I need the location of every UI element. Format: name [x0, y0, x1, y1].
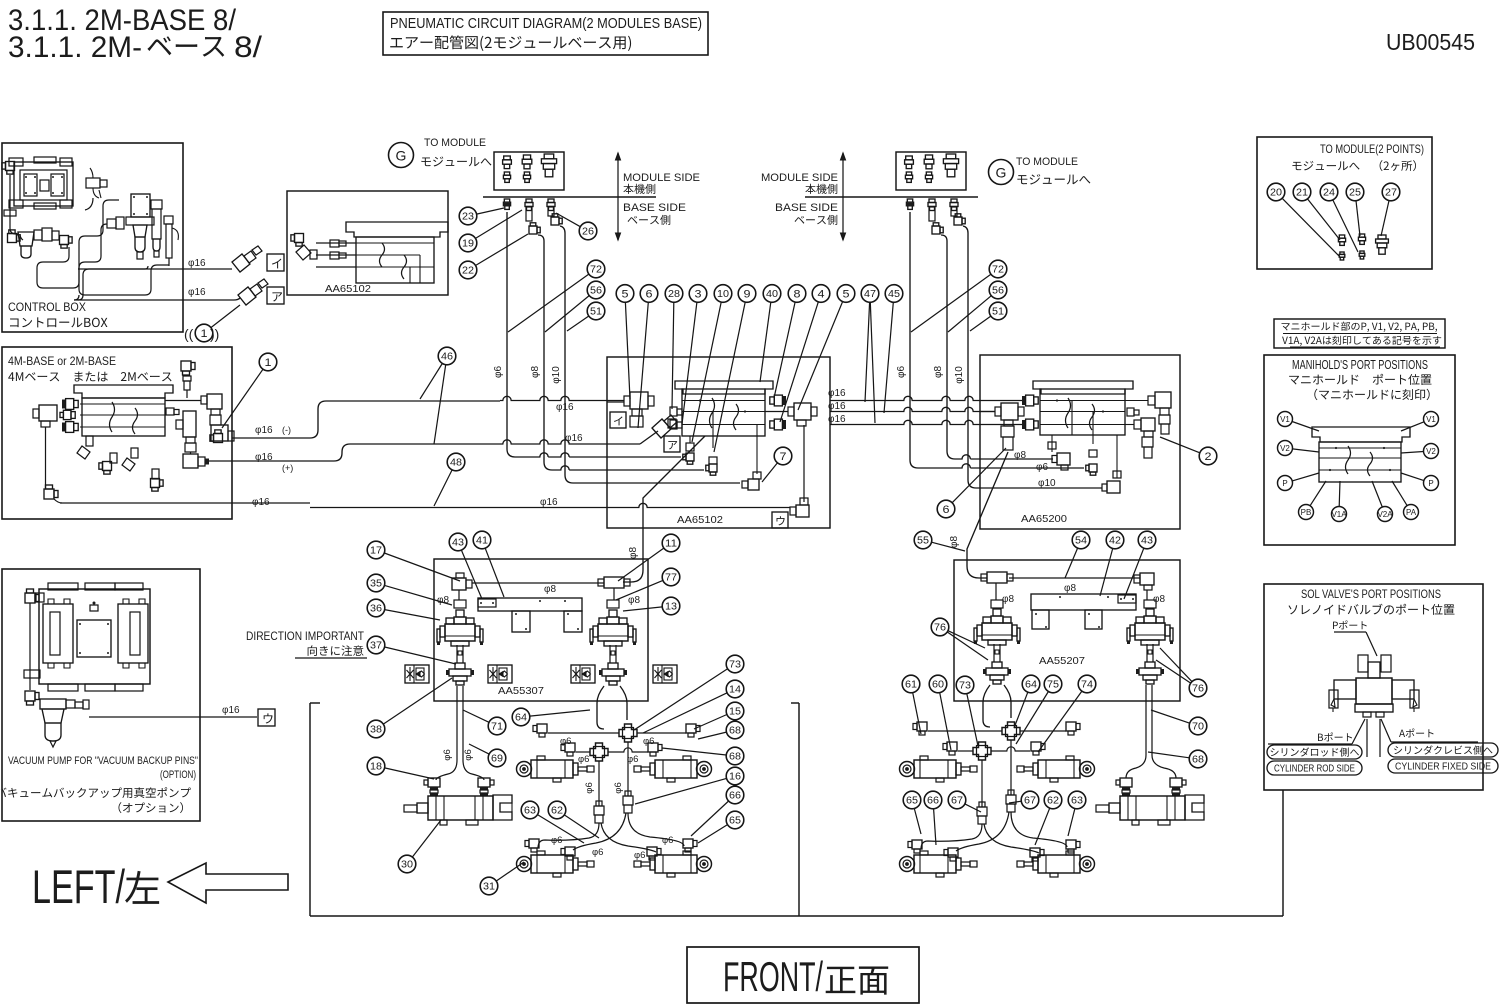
svg-text:21: 21 — [1296, 188, 1308, 199]
base fitting 3 left — [547, 199, 555, 216]
port V1 left — [1278, 412, 1320, 432]
to module text left — [421, 137, 491, 166]
phi8 label AA55207 right — [1153, 594, 1165, 605]
big cylinder right module — [1096, 795, 1204, 825]
callout 5 — [798, 285, 855, 410]
pipe phi10 left vertical — [560, 226, 740, 483]
svg-text:φ16: φ16 — [255, 425, 273, 436]
svg-text:V1: V1 — [1426, 415, 1436, 424]
callout 21 — [1293, 183, 1311, 201]
base fitting 2 left — [525, 199, 533, 221]
vacuum pump left pipe — [25, 589, 44, 705]
manihold drawing — [1312, 427, 1410, 482]
cross2r right elbow — [1031, 742, 1045, 755]
title text 2M-BASE — [8, 4, 237, 37]
callout 67 — [1009, 791, 1039, 809]
callout 56 — [948, 281, 1007, 332]
vacuum pump filter — [40, 699, 89, 747]
svg-text:AA55307: AA55307 — [498, 685, 544, 697]
small cylinder mid-left — [517, 756, 595, 782]
cross2r right arm — [991, 747, 1030, 751]
svg-text:24: 24 — [1323, 188, 1335, 199]
svg-text:4: 4 — [818, 289, 825, 301]
svg-text:18: 18 — [370, 762, 382, 773]
manihold-positions box — [1264, 355, 1455, 545]
direction fitting right — [599, 645, 627, 685]
speed controller 1 — [405, 665, 429, 683]
AA55307 label — [498, 685, 544, 697]
cross fitting 2 right module — [973, 742, 991, 760]
P port label — [1333, 621, 1377, 656]
cross2 left elbow — [561, 743, 575, 756]
cyl feed pipe A — [598, 761, 600, 806]
callout 19 — [459, 210, 522, 252]
phi6 rotated A — [584, 782, 595, 793]
svg-text:46: 46 — [441, 352, 453, 363]
callout 43 — [449, 533, 482, 599]
phi8 label AA65200 — [1014, 450, 1026, 461]
callout 31 — [480, 862, 524, 895]
machine outline bottom — [310, 915, 1283, 917]
svg-text:φ6: φ6 — [584, 782, 595, 793]
svg-text:10: 10 — [717, 289, 729, 300]
AA55207 top-right elbow — [1134, 573, 1154, 600]
AA65102 under-manifold fitting 1 — [683, 436, 694, 464]
svg-text:6: 6 — [646, 289, 653, 301]
svg-text:V2: V2 — [1426, 447, 1436, 456]
cross2r left arm — [958, 750, 973, 752]
cyl feed pipe rA — [981, 760, 983, 807]
phi8 label top pipe — [544, 584, 556, 595]
base fitting 1 right — [906, 199, 913, 209]
phi6 rotated right — [896, 366, 907, 378]
callout 36 — [367, 599, 440, 620]
callout 54 — [1065, 531, 1090, 578]
AA65200 label — [1021, 513, 1067, 525]
katakana-i marker 2 — [610, 412, 626, 428]
4M-BASE manifold — [74, 385, 173, 436]
callout 22 — [459, 234, 528, 279]
phi10 rotated left — [551, 366, 562, 384]
svg-text:77: 77 — [665, 573, 677, 584]
control box frame — [2, 143, 183, 332]
control box pump left pipe — [2, 162, 16, 229]
svg-text:V1: V1 — [1280, 415, 1290, 424]
callout 65 — [698, 811, 744, 843]
inter-box line 1 — [830, 396, 1024, 400]
katakana-i route marker — [267, 254, 284, 271]
callout 6 — [638, 285, 658, 428]
callout 72 — [508, 260, 605, 332]
mid elbow L — [533, 724, 547, 737]
svg-text:68: 68 — [729, 726, 741, 737]
svg-text:DIRECTION IMPORTANT: DIRECTION IMPORTANT — [246, 631, 364, 643]
svg-text:CONTROL BOX: CONTROL BOX — [8, 300, 86, 314]
cross2 right elbow — [648, 743, 662, 756]
svg-text:UB00545: UB00545 — [1386, 29, 1475, 55]
small cylinder mid-right — [634, 756, 712, 782]
callout 18 — [367, 757, 434, 779]
svg-text:64: 64 — [515, 713, 527, 724]
svg-text:66: 66 — [729, 791, 741, 802]
callout 20 — [1267, 183, 1285, 201]
phi6 label AA65200 — [1036, 462, 1048, 473]
phi8 rotated label left feed — [628, 547, 639, 559]
bottom elbows left module — [525, 839, 697, 860]
callout 45 — [884, 285, 903, 413]
phi16 L2 mid label — [556, 402, 583, 444]
callout 24 — [1320, 183, 1338, 201]
AA65200 right elbow mid — [1125, 418, 1155, 458]
svg-text:25: 25 — [1349, 188, 1361, 199]
to-module fitting group left — [494, 152, 564, 190]
solenoid valve AA55207 left (76) — [974, 609, 1020, 645]
elbow fitting to AA65102-a — [238, 279, 268, 305]
AA65200 left tee — [980, 403, 1024, 450]
pipe phi8 right vertical — [941, 235, 1053, 459]
AA65102 box — [607, 357, 830, 528]
AA65102 manifold — [675, 381, 773, 474]
callout 68 — [1148, 750, 1207, 768]
main line L2 (phi16 plus) — [209, 431, 658, 461]
svg-text:φ16: φ16 — [540, 497, 558, 508]
svg-text:56: 56 — [992, 286, 1004, 297]
svg-text:φ8: φ8 — [544, 584, 556, 595]
callout 76 left — [931, 618, 988, 660]
phi6 rotated left — [493, 366, 504, 378]
katakana-u route marker — [258, 709, 275, 726]
svg-text:23: 23 — [462, 212, 474, 223]
callout 46 leaders — [420, 364, 446, 445]
cyl feed pipe B — [627, 742, 629, 796]
cross fitting 1 left module — [619, 724, 637, 742]
svg-text:φ16: φ16 — [222, 705, 240, 716]
left arrow — [168, 863, 288, 903]
svg-text:φ6: φ6 — [643, 736, 654, 747]
svg-text:43: 43 — [1141, 536, 1153, 547]
svg-text:17: 17 — [370, 546, 382, 557]
phi16 minus labels — [255, 425, 291, 436]
svg-text:φ6: φ6 — [578, 754, 589, 765]
callout 69 — [469, 744, 506, 767]
callout 13 — [623, 597, 680, 615]
svg-text:V2A: V2A — [1377, 510, 1393, 519]
to module text right — [1016, 156, 1090, 184]
manihold-positions title — [1289, 358, 1431, 400]
module-base separator left — [483, 196, 656, 198]
branch fitting rB — [1006, 790, 1016, 812]
phi16 label out1 — [188, 258, 206, 269]
svg-text:P: P — [1428, 479, 1433, 488]
katakana-u marker 2 — [772, 512, 788, 528]
AA55307 plate — [478, 598, 582, 632]
base side label left — [623, 202, 686, 225]
vacuum pump box frame — [2, 569, 200, 821]
module-base separator right — [805, 196, 978, 198]
svg-text:13: 13 — [665, 602, 677, 613]
main line C (phi16 bottom) — [310, 503, 790, 507]
solenoid valve left (35/36) — [437, 610, 483, 646]
callout 9 — [714, 285, 756, 452]
2points fitting 2 — [1358, 234, 1365, 259]
AA65102 bottom right elbow — [790, 425, 809, 517]
svg-text:PNEUMATIC CIRCUIT DIAGRAM(2 MO: PNEUMATIC CIRCUIT DIAGRAM(2 MODULES BASE… — [390, 16, 702, 32]
phi8 feed pipe right module — [967, 452, 1008, 578]
port PA — [1392, 481, 1419, 520]
svg-text:55: 55 — [917, 536, 929, 547]
base fitting 3 right — [950, 199, 958, 216]
phi16 plus labels — [255, 452, 293, 473]
2points fitting 1 — [1338, 235, 1345, 260]
phi8 label right stem — [628, 595, 640, 606]
cross2r left elbow — [943, 742, 957, 755]
machine outline left module — [310, 703, 320, 916]
svg-text:AA65102: AA65102 — [677, 514, 723, 526]
svg-text:38: 38 — [370, 725, 382, 736]
phi16 line C start — [60, 502, 310, 504]
katakana-a marker 2 — [664, 436, 680, 452]
direction fitting left (37/38) — [446, 645, 474, 685]
callout 15 — [694, 702, 744, 729]
svg-text:φ6: φ6 — [613, 782, 624, 793]
svg-text:7: 7 — [780, 451, 787, 463]
AA55307 top tee — [598, 577, 630, 600]
phi8 rotated left — [530, 366, 541, 378]
AA65200 box — [980, 355, 1180, 529]
control box pump unit — [9, 157, 73, 209]
base elbow 3 right — [954, 214, 965, 225]
cross fitting 2 left module — [590, 743, 608, 761]
svg-text:45: 45 — [888, 289, 900, 300]
port P right — [1401, 473, 1439, 491]
speed controller 3 — [571, 665, 595, 683]
bottom elbows right module — [908, 840, 1080, 861]
4M-BASE output fitting B — [183, 452, 209, 468]
sol-valve box — [1264, 584, 1483, 790]
AA55307 top-left elbow — [452, 573, 472, 600]
AA65102 upper manifold — [316, 222, 448, 283]
callout 68 — [698, 721, 744, 739]
callout 14 — [643, 680, 744, 733]
port V2 right — [1401, 444, 1439, 459]
phi8 label AA55207 top — [1064, 583, 1076, 594]
AA65102 diag elbow — [652, 415, 677, 438]
svg-text:1: 1 — [265, 357, 272, 369]
svg-text:26: 26 — [582, 227, 594, 238]
cylinder rod side JP pill — [1267, 745, 1362, 759]
svg-text:(-): (-) — [282, 425, 291, 435]
FRONT box — [687, 947, 919, 1003]
small cylinder r bot-right — [1017, 851, 1095, 877]
port V2 left — [1278, 441, 1320, 456]
to-module fitting group right — [896, 152, 966, 190]
AA65200 left fittings — [1022, 395, 1038, 430]
AA65102 under-manifold fitting 2 — [706, 457, 717, 475]
svg-text:69: 69 — [491, 754, 503, 765]
callout 66 — [924, 791, 942, 845]
svg-text:30: 30 — [401, 860, 413, 871]
sol valve down lines — [1367, 719, 1380, 757]
svg-text:3: 3 — [695, 289, 702, 301]
bottom branch pipes left module — [538, 813, 684, 852]
callout 1 double-paren — [184, 305, 240, 342]
cross2 right arm — [608, 748, 648, 752]
svg-text:51: 51 — [992, 307, 1004, 318]
phi10 label AA65200 — [1038, 478, 1056, 489]
AA65102 label — [677, 514, 723, 526]
AA55207 top pipe — [1009, 577, 1140, 579]
4M-BASE label — [8, 354, 172, 382]
svg-text:φ10: φ10 — [551, 366, 562, 384]
cyl feed pipe rB — [1010, 740, 1012, 795]
to-module-2points text — [1292, 142, 1424, 171]
phi8 rotated label right feed — [949, 536, 960, 548]
callout 51 — [970, 302, 1007, 331]
mid row pipe right module — [928, 730, 1066, 732]
callout 47 — [861, 285, 879, 402]
phi6 labels cross2 — [578, 754, 638, 765]
2points fitting 3 — [1376, 235, 1389, 254]
valve fitting r1 — [991, 600, 1003, 608]
air tank bell right module — [983, 685, 1011, 727]
svg-text:74: 74 — [1081, 680, 1093, 691]
svg-text:31: 31 — [483, 882, 495, 893]
speed controller 2 — [488, 665, 512, 683]
phi6 rotated B — [613, 782, 624, 793]
small cylinder bot-right — [634, 851, 712, 877]
svg-text:φ6: φ6 — [463, 749, 474, 760]
mid elbow rL — [913, 722, 927, 735]
control box FRL unit — [107, 194, 178, 266]
callout 37 — [367, 636, 456, 664]
svg-text:20: 20 — [1270, 188, 1282, 199]
small cylinder r mid-left — [900, 756, 978, 782]
callout 41 — [473, 531, 504, 597]
svg-text:(+): (+) — [282, 463, 293, 473]
svg-text:TO MODULE(2 POINTS): TO MODULE(2 POINTS) — [1320, 142, 1424, 156]
svg-text:φ8: φ8 — [933, 366, 944, 378]
svg-text:4M-BASE or 2M-BASE: 4M-BASE or 2M-BASE — [8, 354, 116, 368]
AA55207 label — [1039, 655, 1085, 667]
callout 10 — [692, 285, 732, 442]
svg-text:64: 64 — [1025, 680, 1037, 691]
svg-text:42: 42 — [1109, 536, 1121, 547]
svg-text:FRONT/: FRONT/ — [723, 953, 823, 1000]
callout 47 extra leader — [870, 302, 875, 423]
svg-text:8: 8 — [794, 289, 801, 301]
solenoid valve right (13) — [590, 610, 636, 646]
svg-text:62: 62 — [1047, 796, 1059, 807]
branch fitting rA — [977, 802, 987, 824]
phi16 inter labels — [828, 388, 846, 425]
svg-text:CYLINDER ROD SIDE: CYLINDER ROD SIDE — [1274, 763, 1355, 775]
callout 17 — [367, 541, 460, 581]
phi6 rotated pair left — [442, 749, 474, 760]
callout 55 — [914, 531, 965, 551]
main line L1 (phi16 minus) — [210, 396, 624, 442]
vacuum pump text — [0, 755, 198, 813]
svg-text:47: 47 — [864, 289, 876, 300]
callout 75 — [1016, 675, 1062, 744]
B port label — [1268, 719, 1365, 744]
callout 48 — [434, 453, 465, 506]
callout 46 — [438, 347, 456, 365]
svg-text:76: 76 — [1192, 684, 1204, 695]
AA55207 box — [954, 560, 1180, 701]
callout 76 right — [1156, 648, 1207, 697]
phi8 label left stem — [437, 595, 449, 606]
svg-text:φ8: φ8 — [530, 366, 541, 378]
pipe phi10 right vertical — [963, 226, 1102, 488]
phi8 feed pipe left module — [623, 436, 705, 582]
phi16 C labels — [252, 497, 558, 508]
svg-text:19: 19 — [462, 239, 474, 250]
valve fitting 35 — [454, 600, 466, 608]
callout 11 — [618, 534, 680, 581]
base elbow 3 left — [551, 214, 562, 225]
svg-text:11: 11 — [665, 539, 677, 550]
cylinder 30 feed pipes — [436, 686, 484, 780]
phi6 labels mid — [560, 736, 654, 747]
svg-text:φ6: φ6 — [896, 366, 907, 378]
svg-text:63: 63 — [524, 806, 536, 817]
AA65102 right fittings — [770, 395, 786, 430]
elbow fitting to AA65102-i — [232, 246, 262, 272]
svg-text:V1A: V1A — [1331, 510, 1347, 519]
callout 65 — [903, 791, 921, 834]
callout 4 — [780, 285, 830, 422]
solenoid valve AA55207 right (76) — [1127, 609, 1173, 645]
AA65200 right small fitting — [1127, 408, 1139, 416]
AA65200 manifold — [1033, 381, 1133, 444]
control box small valve — [86, 168, 107, 198]
callout 2 — [1160, 437, 1217, 465]
callout 16 — [635, 767, 744, 804]
svg-text:AA65200: AA65200 — [1021, 513, 1067, 525]
svg-text:MODULE SIDE: MODULE SIDE — [761, 172, 838, 184]
valve fitting 13b — [607, 600, 619, 608]
AA55307 top pipe — [472, 582, 604, 584]
callout 7 — [762, 447, 792, 482]
svg-text:φ16: φ16 — [252, 497, 270, 508]
svg-text:6: 6 — [943, 504, 950, 516]
svg-text:φ10: φ10 — [954, 366, 965, 384]
svg-text:φ6: φ6 — [662, 835, 673, 846]
machine outline right riser — [1282, 790, 1284, 916]
callout 35 — [367, 574, 452, 605]
callout 38 — [367, 678, 452, 738]
svg-text:φ6: φ6 — [627, 754, 638, 765]
port V1A — [1331, 481, 1347, 522]
cross fitting 1 right module — [1002, 722, 1020, 740]
phi16 vacuum label — [222, 705, 240, 716]
base fitting 1 left — [503, 199, 510, 209]
mid elbow rR — [1066, 722, 1080, 735]
to-module-2points box — [1257, 137, 1432, 269]
phi10 rotated right — [954, 366, 965, 384]
port PB — [1299, 481, 1327, 520]
base elbow 2 left — [529, 223, 540, 234]
svg-text:φ16: φ16 — [188, 258, 206, 269]
base elbow 2 right — [932, 223, 943, 234]
svg-text:60: 60 — [932, 680, 944, 691]
callout 42 — [1100, 531, 1124, 596]
svg-text:73: 73 — [959, 681, 971, 692]
module-base arrow right — [841, 153, 846, 240]
sol valve drawing — [1329, 655, 1419, 717]
pipe phi6 right vertical — [910, 212, 1084, 468]
svg-text:73: 73 — [729, 660, 741, 671]
